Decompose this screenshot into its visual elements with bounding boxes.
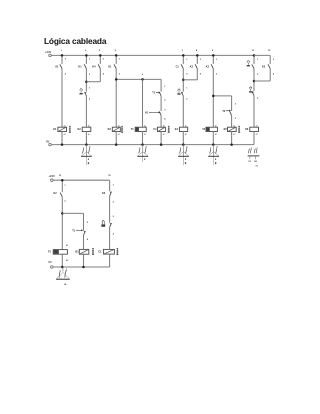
svg-text:A2: A2 [256, 133, 258, 136]
svg-text:A1: A1 [233, 125, 235, 128]
svg-text:+24V: +24V [45, 50, 52, 54]
svg-text:Lógica cableada: Lógica cableada [44, 36, 107, 46]
svg-text:A2: A2 [215, 133, 217, 136]
svg-text:A1: A1 [185, 125, 187, 128]
svg-text:0V: 0V [48, 260, 51, 264]
svg-text:1B: 1B [254, 161, 257, 163]
svg-text:A2: A2 [66, 259, 68, 262]
svg-text:A1: A1 [64, 125, 66, 128]
svg-text:A2: A2 [144, 133, 146, 136]
svg-text:A2: A2 [64, 133, 66, 136]
svg-text:A1: A1 [215, 125, 217, 128]
svg-text:A1: A1 [163, 125, 165, 128]
svg-text:A1: A1 [118, 125, 120, 128]
svg-text:A1: A1 [66, 244, 68, 247]
svg-text:0V: 0V [46, 139, 49, 143]
svg-text:A2: A2 [185, 133, 187, 136]
svg-text:A2: A2 [233, 133, 235, 136]
svg-text:A1: A1 [256, 125, 258, 128]
svg-text:A2: A2 [163, 133, 165, 136]
svg-text:A2: A2 [118, 133, 120, 136]
svg-text:A1: A1 [144, 125, 146, 128]
svg-text:+24V: +24V [48, 174, 55, 178]
svg-text:A2: A2 [88, 133, 90, 136]
svg-text:A1: A1 [88, 125, 90, 128]
